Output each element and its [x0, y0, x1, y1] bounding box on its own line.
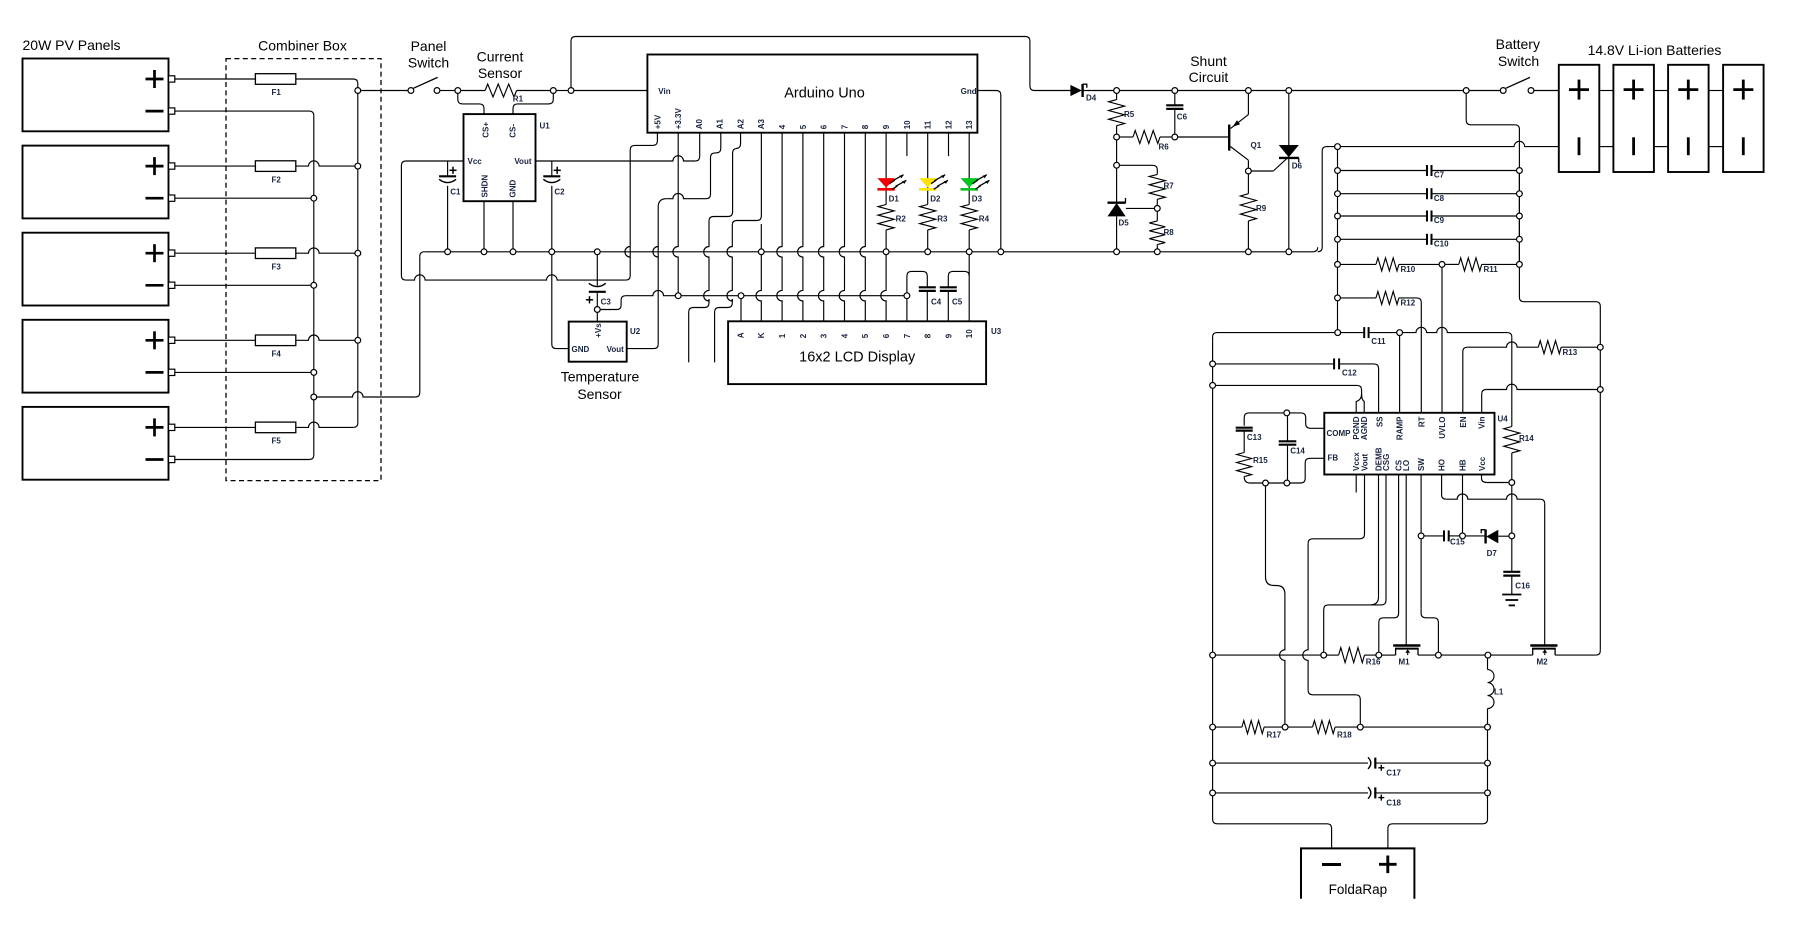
svg-text:R8: R8: [1164, 228, 1175, 237]
svg-text:C11: C11: [1371, 337, 1386, 346]
svg-text:C6: C6: [1177, 113, 1188, 122]
svg-text:Switch: Switch: [1498, 53, 1539, 69]
svg-text:20W PV Panels: 20W PV Panels: [23, 37, 121, 53]
svg-text:10: 10: [965, 329, 974, 338]
svg-text:7: 7: [903, 333, 912, 338]
svg-text:K: K: [757, 332, 766, 338]
svg-text:R17: R17: [1267, 730, 1282, 739]
svg-text:R3: R3: [937, 215, 948, 224]
svg-text:C4: C4: [931, 298, 942, 307]
svg-text:M1: M1: [1399, 657, 1411, 666]
svg-text:9: 9: [944, 333, 953, 338]
svg-text:D4: D4: [1086, 94, 1097, 103]
svg-text:4: 4: [778, 124, 787, 129]
svg-text:2: 2: [799, 333, 808, 338]
svg-text:Gnd: Gnd: [961, 87, 977, 96]
svg-text:Vin: Vin: [1478, 416, 1487, 428]
svg-text:Sensor: Sensor: [577, 386, 622, 402]
svg-text:Switch: Switch: [408, 55, 449, 71]
svg-text:Panel: Panel: [411, 38, 447, 54]
svg-text:R10: R10: [1401, 265, 1416, 274]
svg-text:C17: C17: [1386, 769, 1401, 778]
svg-text:Vout: Vout: [514, 157, 532, 166]
svg-text:6: 6: [820, 124, 829, 129]
svg-text:+5V: +5V: [653, 114, 662, 129]
svg-text:U4: U4: [1498, 415, 1509, 424]
svg-text:Combiner Box: Combiner Box: [258, 38, 347, 54]
svg-text:R7: R7: [1164, 182, 1175, 191]
svg-text:C3: C3: [601, 298, 612, 307]
svg-text:C16: C16: [1515, 582, 1530, 591]
svg-text:R15: R15: [1253, 456, 1268, 465]
svg-text:D1: D1: [889, 195, 900, 204]
svg-text:D2: D2: [930, 195, 941, 204]
svg-text:R2: R2: [896, 215, 907, 224]
svg-text:F4: F4: [272, 350, 282, 359]
svg-text:D5: D5: [1119, 219, 1130, 228]
svg-text:C5: C5: [952, 298, 963, 307]
svg-text:Vout: Vout: [1361, 453, 1370, 471]
svg-text:Q1: Q1: [1251, 141, 1262, 150]
svg-text:FB: FB: [1328, 453, 1339, 462]
svg-text:8: 8: [861, 124, 870, 129]
svg-text:CS-: CS-: [508, 124, 517, 138]
svg-text:Current: Current: [477, 48, 524, 64]
svg-text:A1: A1: [716, 119, 725, 130]
svg-text:Shunt: Shunt: [1190, 53, 1227, 69]
svg-text:A: A: [737, 332, 746, 338]
svg-text:10: 10: [903, 120, 912, 129]
svg-text:R1: R1: [513, 95, 524, 104]
svg-text:D7: D7: [1487, 549, 1498, 558]
svg-text:Vin: Vin: [658, 87, 670, 96]
svg-text:HO: HO: [1438, 459, 1447, 471]
svg-text:Temperature: Temperature: [561, 368, 640, 384]
svg-text:GND: GND: [572, 345, 590, 354]
svg-text:C10: C10: [1434, 240, 1449, 249]
svg-text:Vcc: Vcc: [468, 157, 483, 166]
svg-text:A0: A0: [695, 119, 704, 130]
svg-text:14.8V Li-ion Batteries: 14.8V Li-ion Batteries: [1588, 42, 1722, 58]
svg-text:Vcc: Vcc: [1478, 456, 1487, 471]
svg-text:11: 11: [924, 120, 933, 129]
svg-text:C18: C18: [1386, 798, 1401, 807]
svg-text:R18: R18: [1337, 730, 1352, 739]
svg-text:SS: SS: [1376, 416, 1385, 427]
svg-text:1: 1: [778, 333, 787, 338]
svg-text:C2: C2: [554, 188, 565, 197]
svg-text:Circuit: Circuit: [1189, 69, 1229, 85]
svg-text:D6: D6: [1292, 162, 1303, 171]
svg-text:Battery: Battery: [1496, 36, 1540, 52]
svg-text:COMP: COMP: [1327, 429, 1352, 438]
svg-text:12: 12: [944, 120, 953, 129]
svg-text:9: 9: [882, 124, 891, 129]
svg-text:A3: A3: [757, 119, 766, 130]
svg-text:U2: U2: [630, 327, 641, 336]
svg-text:C1: C1: [450, 188, 461, 197]
svg-text:7: 7: [840, 124, 849, 129]
svg-text:RT: RT: [1417, 416, 1426, 427]
svg-text:R14: R14: [1519, 434, 1534, 443]
svg-text:R16: R16: [1366, 657, 1381, 666]
svg-text:16x2 LCD Display: 16x2 LCD Display: [799, 350, 916, 366]
svg-text:R6: R6: [1159, 143, 1170, 152]
svg-text:C13: C13: [1247, 433, 1262, 442]
svg-text:A2: A2: [737, 119, 746, 130]
svg-text:U1: U1: [540, 122, 551, 131]
svg-text:C12: C12: [1342, 369, 1357, 378]
svg-text:R9: R9: [1256, 204, 1267, 213]
svg-text:CS+: CS+: [481, 122, 490, 138]
svg-text:C7: C7: [1434, 171, 1445, 180]
svg-text:Vout: Vout: [607, 345, 625, 354]
svg-text:UVLO: UVLO: [1438, 417, 1447, 439]
svg-text:Arduino Uno: Arduino Uno: [784, 85, 865, 101]
svg-text:C8: C8: [1434, 194, 1445, 203]
svg-text:EN: EN: [1459, 416, 1468, 427]
svg-text:8: 8: [924, 333, 933, 338]
svg-text:F1: F1: [272, 88, 282, 97]
svg-text:R5: R5: [1124, 110, 1135, 119]
svg-text:C14: C14: [1290, 446, 1305, 455]
svg-text:4: 4: [840, 333, 849, 338]
svg-text:AGND: AGND: [1360, 416, 1369, 440]
svg-text:5: 5: [861, 333, 870, 338]
svg-text:F2: F2: [272, 175, 282, 184]
svg-text:Sensor: Sensor: [478, 65, 523, 81]
svg-text:R12: R12: [1401, 299, 1416, 308]
svg-text:LO: LO: [1402, 460, 1411, 471]
svg-text:3: 3: [820, 333, 829, 338]
svg-text:RAMP: RAMP: [1396, 416, 1405, 440]
svg-text:13: 13: [965, 120, 974, 129]
svg-text:R13: R13: [1563, 348, 1578, 357]
svg-text:GND: GND: [508, 180, 517, 198]
svg-text:R11: R11: [1484, 265, 1499, 274]
svg-text:C15: C15: [1450, 538, 1465, 547]
svg-text:5: 5: [799, 124, 808, 129]
svg-text:SHDN: SHDN: [480, 175, 489, 198]
svg-text:R4: R4: [979, 215, 990, 224]
svg-text:U3: U3: [991, 327, 1002, 336]
svg-text:+Vs: +Vs: [594, 323, 603, 338]
svg-text:F5: F5: [272, 437, 282, 446]
svg-text:M2: M2: [1537, 657, 1549, 666]
svg-text:FoldaRap: FoldaRap: [1329, 882, 1388, 897]
svg-text:C9: C9: [1434, 216, 1445, 225]
svg-text:HB: HB: [1459, 459, 1468, 471]
svg-text:D3: D3: [972, 195, 983, 204]
svg-text:L1: L1: [1494, 687, 1504, 696]
svg-text:SW: SW: [1417, 458, 1426, 471]
svg-text:6: 6: [882, 333, 891, 338]
svg-text:+3.3V: +3.3V: [674, 108, 683, 130]
svg-text:F3: F3: [272, 262, 282, 271]
svg-text:CSG: CSG: [1382, 454, 1391, 471]
